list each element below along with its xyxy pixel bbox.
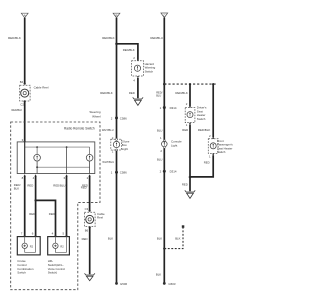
svg-text:D314: D314 bbox=[170, 170, 177, 174]
connector D314 pin2 bbox=[160, 170, 177, 174]
svg-text:RED/BLK: RED/BLK bbox=[100, 91, 112, 95]
wire pin6 to HFL switch pin5 bbox=[66, 176, 68, 236]
svg-text:A: A bbox=[24, 14, 26, 18]
connector arrow C bbox=[161, 13, 168, 18]
svg-text:C3: C3 bbox=[85, 207, 89, 211]
node B6 bbox=[85, 226, 91, 232]
hazard pin 4 bbox=[133, 76, 139, 82]
junction dot bbox=[189, 176, 192, 179]
junction dot bbox=[115, 43, 118, 46]
svg-text:RED/BLK: RED/BLK bbox=[175, 91, 187, 95]
wire WHT/BLU to glove box light bbox=[116, 118, 118, 139]
svg-text:RED: RED bbox=[182, 183, 188, 187]
ground point G506 bbox=[115, 282, 127, 286]
steering wheel dashed boundary bbox=[11, 122, 100, 290]
svg-text:BLU: BLU bbox=[157, 129, 162, 133]
svg-text:Switch: Switch bbox=[217, 150, 226, 154]
svg-text:R2: R2 bbox=[60, 244, 64, 248]
driver's seat heater switch bbox=[185, 106, 207, 123]
svg-text:Light: Light bbox=[122, 147, 128, 151]
svg-text:RED/BLK: RED/BLK bbox=[102, 36, 114, 40]
svg-text:D314: D314 bbox=[170, 106, 177, 110]
label Steering Wheel bbox=[89, 110, 101, 118]
wire pin8 to cruise switch pin7 bbox=[24, 176, 26, 236]
wire RED/BLK down middle column bbox=[116, 18, 118, 118]
wire RED passenger switch to junction bbox=[190, 155, 213, 177]
svg-text:BLK: BLK bbox=[175, 236, 180, 240]
svg-text:BLU: BLU bbox=[156, 94, 161, 98]
svg-text:RED: RED bbox=[27, 183, 33, 187]
svg-text:B6: B6 bbox=[85, 229, 89, 233]
driver switch pin 2 bbox=[186, 102, 191, 107]
internal bus top bbox=[25, 146, 90, 148]
junction dot bbox=[34, 199, 36, 201]
label RED/ BLU stacked bbox=[156, 90, 162, 97]
hazard pin 2 bbox=[133, 56, 139, 61]
wire RED driver switch down bbox=[189, 125, 191, 192]
wire BLU to console light bbox=[163, 108, 165, 141]
svg-text:C586: C586 bbox=[120, 116, 127, 120]
node B4 bbox=[20, 80, 26, 85]
terminal square bbox=[182, 225, 185, 228]
connector D314 pin1 bbox=[160, 106, 177, 110]
dashed branch wire bbox=[164, 228, 183, 249]
radio remote switch body bbox=[17, 142, 95, 174]
svg-text:Switch: Switch bbox=[17, 271, 26, 275]
node C2 bbox=[20, 100, 25, 106]
svg-text:WHT/BLU: WHT/BLU bbox=[102, 128, 114, 132]
cable reel C1 bbox=[20, 85, 49, 101]
svg-text:RED: RED bbox=[82, 237, 88, 241]
node C3 bbox=[85, 207, 91, 212]
passenger switch pin 1 bbox=[209, 154, 214, 159]
svg-text:RED: RED bbox=[81, 186, 87, 190]
junction dot bbox=[163, 247, 165, 249]
junction dot bbox=[212, 83, 214, 85]
wire RED/BLK cable reel to radio remote switch bbox=[24, 101, 26, 141]
front passenger's seat heater switch bbox=[208, 139, 233, 154]
svg-text:RED: RED bbox=[204, 161, 210, 165]
svg-text:RED: RED bbox=[29, 212, 35, 216]
svg-text:RED: RED bbox=[49, 212, 55, 216]
lamp L2 bbox=[86, 147, 93, 173]
pin 3 bbox=[22, 138, 26, 142]
svg-text:Light: Light bbox=[171, 143, 177, 147]
ground point G503 bbox=[163, 282, 176, 286]
cable reel C2 lower bbox=[84, 212, 105, 227]
glove box light bbox=[111, 138, 130, 151]
wire BLK to ground G503 bbox=[163, 171, 165, 283]
svg-text:B4: B4 bbox=[20, 80, 24, 84]
junction dot bbox=[163, 83, 166, 86]
wire pin2 to cable reel C3 bbox=[89, 176, 91, 211]
wire cable reel to ground bbox=[89, 227, 91, 274]
wire RED/BLK from arrow A to cable reel bbox=[24, 18, 26, 83]
ground symbol seat heater bbox=[185, 190, 195, 198]
pin 6 bbox=[64, 174, 68, 180]
label Cruise Control Combination Switch bbox=[17, 259, 34, 275]
svg-text:RED/BLU: RED/BLU bbox=[150, 36, 163, 40]
wire RED/BLK to driver's seat heater switch bbox=[189, 84, 191, 106]
wire RED/BLU down right column bbox=[163, 18, 165, 108]
HFL switch pins 4 5 bbox=[52, 232, 68, 237]
svg-text:G506: G506 bbox=[120, 282, 127, 286]
connector arrow B bbox=[113, 13, 120, 18]
svg-text:Reel: Reel bbox=[97, 216, 103, 220]
driver switch pin 1 bbox=[186, 123, 191, 127]
connector C586 pin2 bbox=[111, 116, 127, 120]
svg-text:RED/BLU: RED/BLU bbox=[53, 183, 65, 187]
lamp L1 bbox=[34, 147, 41, 173]
wire glove box light to connector bbox=[116, 151, 118, 173]
connector arrow A bbox=[21, 13, 28, 18]
svg-text:RED: RED bbox=[129, 91, 135, 95]
junction dot bbox=[36, 146, 38, 148]
dashed feeder wire to seat heater switches bbox=[164, 83, 216, 85]
wire branch to HFL switch pin4 bbox=[36, 200, 56, 235]
wire BLK to ground G506 bbox=[116, 172, 118, 283]
svg-text:B: B bbox=[115, 14, 117, 18]
junction dot bbox=[36, 166, 38, 168]
pin 8 bbox=[22, 174, 26, 180]
svg-text:BLK: BLK bbox=[157, 236, 162, 240]
svg-text:Wheel: Wheel bbox=[92, 114, 101, 118]
cruise control combination switch box bbox=[17, 237, 40, 255]
label RED/BLK stacked bbox=[14, 183, 21, 190]
svg-text:Switch: Switch bbox=[197, 117, 206, 121]
pin 4 bbox=[33, 174, 37, 180]
svg-text:Radio Remote Switch: Radio Remote Switch bbox=[64, 127, 95, 131]
svg-text:RED/BLK: RED/BLK bbox=[8, 36, 21, 40]
svg-text:RED/BLK: RED/BLK bbox=[123, 48, 135, 52]
internal wire to pin 6 bbox=[66, 147, 68, 173]
pin 2 bbox=[87, 174, 91, 180]
ground symbol left bbox=[85, 273, 95, 280]
svg-text:RED/BLK: RED/BLK bbox=[198, 128, 210, 132]
wire BLU console light to connector bbox=[163, 148, 165, 171]
wire RED/BLK to passenger's seat heater switch bbox=[212, 84, 214, 137]
svg-text:C2: C2 bbox=[20, 102, 24, 106]
junction dot bbox=[66, 146, 68, 148]
junction dot bbox=[189, 83, 191, 85]
svg-text:Switch: Switch bbox=[145, 69, 154, 73]
wire branch to hazard switch bbox=[117, 44, 138, 60]
svg-text:WHT/BLU: WHT/BLU bbox=[102, 160, 114, 164]
svg-text:Cable Reel: Cable Reel bbox=[34, 85, 49, 89]
svg-text:Switch): Switch) bbox=[48, 271, 58, 275]
svg-text:G503: G503 bbox=[168, 282, 175, 286]
svg-text:BLK: BLK bbox=[156, 273, 161, 277]
cruise control switch pins 7 6 bbox=[21, 232, 37, 237]
wire hazard to ground bbox=[137, 78, 139, 98]
connector C586 pin1 bbox=[111, 171, 127, 175]
svg-text:RED/BLK: RED/BLK bbox=[12, 109, 23, 112]
passenger switch pin 2 bbox=[209, 134, 214, 139]
svg-text:BLK: BLK bbox=[108, 236, 113, 240]
svg-text:C586: C586 bbox=[120, 171, 127, 175]
svg-text:BLU: BLU bbox=[157, 157, 162, 161]
internal bus bottom bbox=[37, 166, 90, 168]
HFL switch box bbox=[48, 237, 70, 255]
internal wire pin3 to pin8 bbox=[24, 142, 26, 174]
svg-text:BLK: BLK bbox=[14, 186, 19, 190]
hazard warning switch bbox=[132, 61, 156, 76]
console light bbox=[162, 140, 182, 149]
wire pin4 to cruise switch pin6 bbox=[35, 176, 37, 236]
ground symbol hazard bbox=[133, 97, 143, 105]
svg-text:RED: RED bbox=[182, 128, 188, 132]
svg-text:R2: R2 bbox=[30, 244, 34, 248]
label HFL Switch (HFL-Voice Control Switch) bbox=[48, 259, 66, 275]
